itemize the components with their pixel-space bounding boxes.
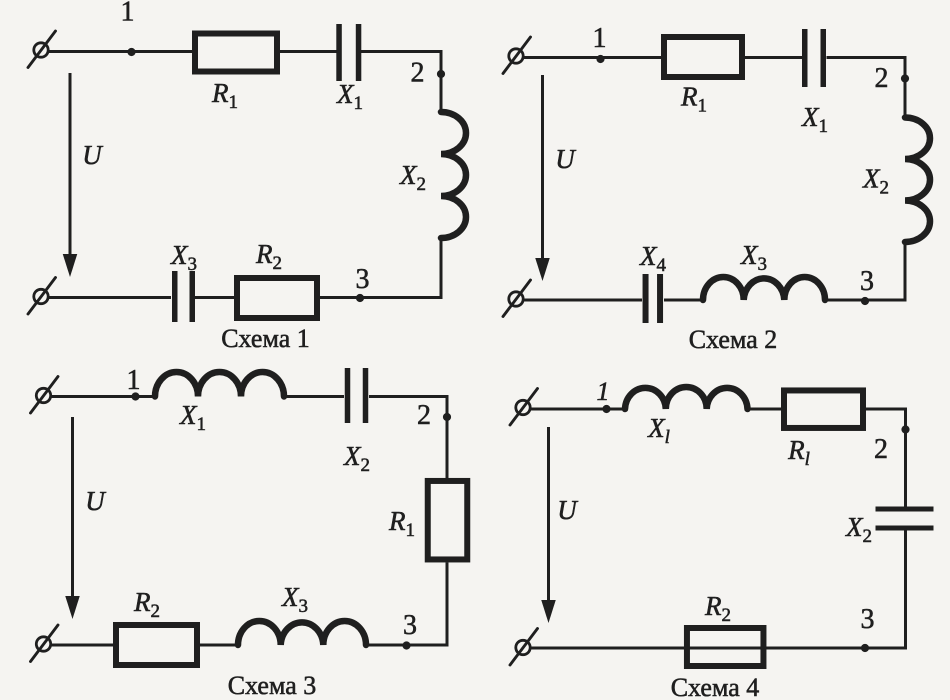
svg-text:2: 2 [417, 400, 431, 431]
svg-text:3: 3 [403, 610, 417, 641]
svg-text:U: U [555, 144, 576, 174]
svg-text:U: U [82, 140, 103, 170]
svg-text:2: 2 [875, 63, 889, 94]
svg-text:U: U [85, 486, 106, 516]
svg-text:1: 1 [593, 23, 607, 54]
svg-text:Схема 4: Схема 4 [671, 673, 760, 700]
svg-text:Схема 1: Схема 1 [221, 324, 310, 353]
svg-text:3: 3 [860, 266, 874, 297]
svg-text:1: 1 [121, 0, 135, 28]
svg-text:1: 1 [127, 365, 141, 396]
svg-text:Схема 3: Схема 3 [228, 671, 317, 700]
svg-text:2: 2 [874, 434, 888, 465]
svg-text:U: U [557, 495, 578, 525]
svg-text:1: 1 [597, 377, 610, 406]
svg-text:Схема 2: Схема 2 [689, 325, 778, 354]
svg-text:3: 3 [861, 604, 875, 635]
svg-text:2: 2 [411, 57, 425, 88]
svg-text:3: 3 [356, 264, 370, 295]
